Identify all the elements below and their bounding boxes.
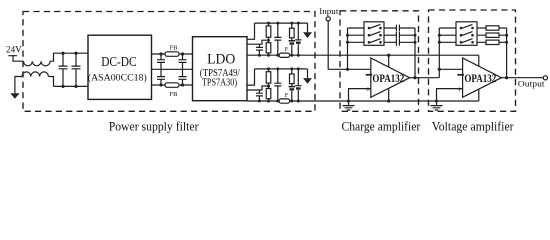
capacitor C3 (FB noise cap)	[256, 44, 263, 55]
node: C10 top	[297, 67, 300, 70]
node: C4 bottom	[276, 54, 279, 57]
resistor Rf3 row3	[477, 41, 507, 43]
wire: bottom rail to DC-DC	[54, 85, 89, 87]
ferrite bead FB2 on V+ rail	[279, 53, 290, 57]
wire: U1 V- supply	[388, 88, 390, 101]
svg-text:(ASA00CC18): (ASA00CC18)	[88, 72, 147, 82]
block LDO (TPS7A49/TPS7A30)	[193, 37, 248, 101]
wire: L2 left lead	[15, 77, 22, 94]
node: C6 bottom	[297, 54, 300, 57]
capacitor C2	[72, 53, 81, 86]
svg-text:Power supply filter: Power supply filter	[109, 119, 199, 133]
node: C4 top	[276, 22, 279, 25]
wire: U2 V+ supply	[478, 55, 480, 66]
resistor R5 (lower divider lower)	[266, 89, 271, 99]
ground arrow (24V return)	[10, 93, 19, 99]
node: right bus at output	[413, 76, 416, 79]
node: right bus row2	[505, 34, 508, 37]
wire: cap bank row1 left	[348, 27, 365, 29]
wire: U1 V+ supply	[388, 55, 390, 67]
node: U1 +in at V- rail crossing	[347, 100, 350, 103]
wire: V+ rail	[247, 54, 479, 56]
wire: L1 to top rail	[50, 53, 88, 61]
node: C1 top junction	[61, 52, 64, 55]
node: R1 top on gnd rail	[267, 22, 270, 25]
svg-text:Charge amplifier: Charge amplifier	[342, 119, 421, 133]
node: U1 V- on rail	[387, 99, 390, 102]
node: right bus at output	[505, 76, 508, 79]
node: lower pi right	[181, 83, 184, 86]
capacitor Cf1 row1	[384, 25, 415, 32]
wire: charge amp right bus	[414, 28, 416, 78]
svg-text:Output: Output	[518, 79, 545, 89]
switch box S1	[364, 22, 384, 46]
earth ground U1	[343, 101, 355, 110]
wire: inverting input to op-amp U2	[439, 68, 462, 70]
node: divider tap	[267, 39, 270, 42]
capacitor C7 (FB noise cap lower)	[256, 90, 263, 101]
pi filter upper: wire DC-DC to LDO	[152, 53, 193, 55]
wire: voltage amp right bus	[506, 28, 508, 78]
dashed box: Voltage amplifier	[429, 10, 516, 111]
wire: upper gnd rail	[255, 22, 308, 24]
capacitor C8	[274, 69, 281, 101]
wire: U2 V- supply	[478, 89, 480, 101]
pi filter lower: wire DC-DC to LDO	[152, 84, 193, 86]
inductor L1 (top, arcs down)	[24, 61, 51, 66]
node: left bus / inverting input tee	[346, 68, 349, 71]
node: R6 top	[290, 67, 293, 70]
wire: LDO lower FB pin to divider tap	[247, 86, 269, 90]
resistor R3 + capacitor C5 (snubber)	[291, 23, 293, 55]
ground arrow lower network	[307, 69, 309, 78]
switch arm row2	[460, 34, 463, 37]
svg-text:DC-DC: DC-DC	[101, 55, 136, 70]
wire: L2 right end down to bottom rail	[48, 77, 53, 87]
svg-text:OPA132: OPA132	[464, 71, 496, 85]
wire: cap bank row3 left	[348, 41, 365, 43]
wire: U1 output to voltage amp	[410, 77, 440, 79]
svg-text:OPA132: OPA132	[372, 71, 404, 85]
dashed box: Charge amplifier	[340, 11, 419, 112]
wire: lower gnd rail	[255, 68, 308, 70]
svg-text:FB: FB	[170, 44, 179, 51]
wire: U2 non-inverting input to ground	[437, 89, 463, 101]
node: C1 bottom junction	[61, 85, 64, 88]
node: left bus row2	[346, 34, 349, 37]
node: C10 bottom	[297, 100, 300, 103]
svg-text:Voltage amplifier: Voltage amplifier	[432, 119, 514, 133]
capacitor: lower pi right cap	[179, 69, 187, 85]
capacitor Cf3 row3	[384, 39, 415, 46]
node: vbus row3	[438, 41, 441, 44]
resistor R4 (lower divider upper)	[268, 69, 270, 101]
node: C8 bottom	[276, 100, 279, 103]
wire: cap bank row2 left	[348, 34, 365, 36]
node: C5 bottom	[290, 54, 293, 57]
op-amp U1 triangle	[371, 58, 410, 97]
node: lower pi left	[159, 83, 162, 86]
minus sign U1	[366, 74, 373, 76]
node: upper pi right	[181, 52, 184, 55]
svg-text:+: +	[365, 85, 370, 95]
resistor R1 (divider upper)	[268, 23, 270, 55]
node: C6 top	[297, 22, 300, 25]
switch box S2	[456, 22, 477, 46]
node: U1 V+ on rail	[387, 54, 390, 57]
node: vbus row2	[438, 34, 441, 37]
ferrite bead FB upper	[165, 52, 179, 57]
wire: res bank row3 left	[439, 41, 456, 43]
wire: U2 output lead	[501, 77, 543, 79]
node: R3 top	[290, 22, 293, 25]
wire: U1 non-inverting input to ground	[349, 89, 371, 101]
ferrite bead FB lower	[165, 83, 179, 88]
svg-text:F: F	[285, 46, 289, 53]
minus sign U2	[457, 74, 464, 76]
wire: res bank row1 left	[439, 27, 456, 29]
svg-text:LDO: LDO	[207, 51, 235, 67]
dashed box: Power supply filter	[23, 12, 315, 112]
node: left bus row3	[346, 41, 349, 44]
switch arm row3	[460, 41, 463, 44]
node: U2 +in at V- rail crossing	[435, 100, 438, 103]
wire: charge amp left bus	[347, 28, 349, 69]
wire: 24V positive lead	[8, 56, 23, 62]
node: lower divider bottom on V- rail	[267, 100, 270, 103]
node: C9 bottom	[290, 100, 293, 103]
op-amp U2 triangle	[463, 58, 502, 97]
wire: mid common rail	[152, 68, 193, 70]
node: C8 top	[276, 67, 279, 70]
svg-text:FB: FB	[170, 91, 179, 98]
node: Cff bottom on V+ rail	[258, 54, 261, 57]
capacitor C10 (electrolytic lower)	[295, 69, 301, 101]
wire: LDO lower gnd pin to lower gnd rail	[247, 69, 255, 85]
terminal: Input	[326, 17, 330, 21]
node: C7 bottom on V- rail	[258, 100, 261, 103]
svg-text:+: +	[457, 85, 462, 95]
wire: LDO upper gnd pin to top rail	[247, 23, 255, 39]
node: upper pi left	[159, 52, 162, 55]
wire: res bank row2 left	[439, 34, 456, 36]
node: right bus row2	[414, 34, 417, 37]
resistor Rf2 row2	[477, 34, 507, 36]
wire: voltage amp input riser / left bus	[438, 28, 440, 78]
capacitor C6 (electrolytic)	[295, 23, 301, 55]
capacitor C1	[59, 53, 68, 86]
svg-text:F: F	[285, 92, 289, 99]
node: C2 bottom junction	[74, 85, 77, 88]
switch arm row2	[368, 34, 371, 37]
wire: V- rail	[247, 100, 479, 102]
node: right bus row3	[505, 41, 508, 44]
capacitor: lower pi left cap	[157, 69, 165, 85]
switch arm row1	[460, 27, 463, 30]
switch arm row1	[368, 27, 371, 30]
block DC-DC (ASA00CC18)	[88, 35, 152, 99]
ferrite bead FB3 on V- rail	[279, 99, 290, 103]
wire: inverting input to op-amp U1	[348, 68, 371, 70]
svg-text:24V: 24V	[6, 45, 22, 55]
inductor L2 (bottom, arcs up)	[22, 72, 48, 77]
node: right bus row3	[414, 41, 417, 44]
wire: input lead into charge amp	[328, 21, 347, 69]
switch arm row3	[368, 41, 371, 44]
resistor R2 (divider lower)	[266, 43, 271, 53]
resistor R6 + capacitor C9 (snubber lower)	[291, 69, 293, 101]
node: left bus tee at inverting input	[438, 68, 441, 71]
capacitor C4	[274, 23, 281, 55]
capacitor: upper pi right cap	[179, 54, 187, 69]
node: R4 top	[267, 67, 270, 70]
svg-text:Input: Input	[319, 7, 339, 16]
terminal: Output	[543, 76, 547, 80]
svg-text:TPS7A30): TPS7A30)	[202, 78, 237, 89]
node: divider bottom on V+ rail	[267, 54, 270, 57]
capacitor Cf2 row2	[384, 32, 415, 39]
capacitor: upper pi left cap	[157, 54, 165, 69]
ground arrow upper network	[307, 23, 309, 32]
node: lower divider tap	[267, 85, 270, 88]
wire: LDO FB pin to divider tap	[247, 40, 269, 44]
earth ground U2	[431, 101, 443, 110]
resistor Rf1 row1	[477, 27, 507, 29]
node: C2 top junction	[74, 52, 77, 55]
